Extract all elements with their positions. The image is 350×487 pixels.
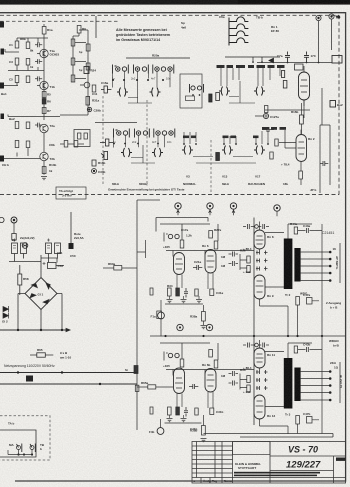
- capacitor C38a: [157, 311, 162, 319]
- capacitor C12b: [84, 133, 87, 139]
- bus resistor R15b: [134, 366, 138, 374]
- wires tube bottoms: [170, 273, 214, 299]
- electrolytic C50b: [21, 243, 27, 254]
- terminal TA (top right): [316, 15, 321, 20]
- dashed enclosure bottom line: [0, 194, 339, 196]
- trimmer pair C14a: [117, 88, 128, 97]
- connector Bu9: [0, 217, 4, 222]
- resistor R2b: [26, 122, 30, 129]
- connector Bu6: [274, 205, 280, 216]
- wire plate row: [166, 251, 254, 257]
- transistor T3a: [80, 82, 90, 88]
- resistor R44b: [294, 346, 297, 353]
- junction dots: [113, 79, 163, 81]
- contact 6: [162, 131, 166, 135]
- screen resistor R36a: [247, 256, 250, 263]
- contact 4: [143, 131, 147, 135]
- resistor R41a: [296, 297, 300, 306]
- note text block: [116, 28, 170, 42]
- trafo junction circle C127: [263, 113, 268, 118]
- secondary taps: [296, 236, 340, 336]
- bus junction dots: [164, 335, 323, 337]
- trimmer pair C15a: [150, 88, 161, 97]
- mains line N: [0, 383, 137, 385]
- coupling caps C12b row: [262, 127, 274, 132]
- trimmer pair C28b: [254, 146, 265, 155]
- trimmer pair C28a: [254, 87, 265, 96]
- capacitor C47a: [307, 298, 313, 305]
- dashed enclosure second top line (left part): [0, 20, 118, 22]
- capacitor C11a: [92, 85, 96, 92]
- bias caps row3: [256, 267, 268, 271]
- main vertical x254 b: [253, 336, 255, 425]
- resistor R29a: [214, 241, 218, 249]
- input contact circles b: [168, 353, 172, 357]
- grid dot: [288, 62, 319, 64]
- transistor T1a: [40, 49, 48, 57]
- resistor R58: [18, 274, 22, 285]
- wire under trimmers: [128, 81, 152, 103]
- wires caps to bus: [9, 254, 64, 296]
- tube Rö2: [296, 135, 307, 162]
- selector feed wire: [95, 16, 97, 38]
- dashed enclosure right edge: [338, 15, 340, 195]
- contact center dots bank S1a: [117, 68, 171, 70]
- capacitor C9a: [71, 58, 75, 65]
- mains line L: [0, 372, 137, 374]
- junction dots mains: [17, 371, 101, 385]
- capacitor C52: [48, 263, 57, 269]
- resistor R19b: [92, 160, 96, 166]
- output transformer Tr3 secondary: [294, 368, 300, 402]
- resistor R7a: [42, 108, 46, 114]
- drop wires: [113, 71, 171, 87]
- bridge diode d2: [43, 300, 49, 304]
- resistor R10a: [86, 44, 90, 51]
- input jack Bu1a: [1, 49, 5, 55]
- capacitor C32a: [282, 71, 285, 78]
- bridge wires: [18, 294, 62, 331]
- wire from TB down: [331, 19, 333, 50]
- cathode row capacitor C30a: [195, 289, 198, 296]
- resistor R11a: [86, 63, 90, 70]
- resistor R30a: [180, 240, 184, 248]
- contact 3: [133, 65, 135, 74]
- edge resistor partial b: [150, 407, 153, 414]
- bridge diode d4: [30, 294, 36, 298]
- tap wire b: [137, 386, 173, 388]
- box left edge: [136, 200, 138, 430]
- capacitor C21a inner: [186, 96, 195, 101]
- connector Bu8: [206, 324, 212, 330]
- resistor R28b: [299, 171, 303, 179]
- wire from TA down: [318, 21, 320, 63]
- wire top right: [288, 224, 322, 239]
- resistor R9a: [77, 26, 81, 34]
- connector Bu5: [230, 203, 236, 215]
- trafo dot Tr1: [22, 243, 28, 249]
- capacitor C20b: [275, 139, 278, 146]
- box top edge: [137, 199, 160, 201]
- speaker bus vertical: [339, 243, 341, 283]
- resistor R24a mid: [84, 67, 89, 74]
- cathode row capacitor C29a: [184, 288, 188, 298]
- caps C18b C19b: [243, 343, 254, 348]
- capacitor C9a block: [295, 64, 304, 70]
- switch inner frame: [0, 430, 36, 457]
- dashed enclosure (tuner/preamp section) top line: [0, 14, 339, 16]
- output tube Rö8: [254, 230, 265, 249]
- input cap C17a': [164, 233, 168, 242]
- wire plate row b: [166, 370, 254, 376]
- trimmer pair C27b: [222, 146, 233, 155]
- tap wire: [103, 267, 137, 269]
- contact 2: [122, 67, 126, 71]
- wire bottom row: [8, 115, 60, 117]
- ground g4: [201, 326, 207, 329]
- capacitor C31a: [210, 289, 214, 296]
- capacitor C10a: [71, 75, 75, 82]
- capacitor C43a: [303, 228, 312, 233]
- bias caps row2 b: [256, 378, 268, 382]
- wires output tubes b: [240, 340, 288, 434]
- wires output tubes: [240, 222, 288, 337]
- capacitor C33: [320, 161, 328, 166]
- inner top edge: [156, 218, 208, 232]
- wire tier2 feed: [95, 122, 137, 124]
- coupling capacitor C21a': [193, 265, 202, 270]
- block frame: [74, 130, 90, 147]
- transistor T2a: [40, 124, 48, 132]
- contact 5: [152, 65, 154, 74]
- output tube Rö12: [254, 395, 265, 419]
- tap resistor R63a: [114, 266, 122, 271]
- resistor R4a: [26, 76, 30, 83]
- connector Bu2a: [332, 56, 342, 64]
- trimmer pair C26b: [182, 146, 193, 155]
- capacitor C2a: [35, 42, 42, 47]
- resistor R38b: [202, 426, 206, 436]
- connector Bu right: [330, 101, 336, 108]
- output transformer Tr2 secondary: [294, 248, 300, 282]
- capacitor C23a dark: [209, 94, 212, 102]
- junction circle C29b: [87, 107, 91, 111]
- triode Rö5: [174, 253, 185, 275]
- resistor R50: [12, 234, 16, 241]
- resistor R13b: [42, 167, 46, 174]
- contact 6: [161, 67, 165, 71]
- wire column x88: [79, 30, 88, 115]
- arrow head: [66, 328, 70, 331]
- feed wire: [225, 57, 280, 61]
- wire input row 3: [4, 148, 40, 159]
- coupling capacitor C21b': [189, 384, 198, 389]
- output tube Rö9: [254, 275, 265, 299]
- main vertical x254: [253, 218, 255, 337]
- diode D1a: [269, 58, 274, 63]
- resistor R5a: [42, 92, 46, 98]
- wire input row 2: [4, 83, 18, 86]
- capacitor C17a feed: [101, 86, 111, 93]
- resistor R30b: [180, 359, 184, 367]
- resistor R3b: [26, 141, 30, 148]
- wire joins: [60, 43, 88, 116]
- wire top row: [160, 224, 218, 241]
- wires around Rö2: [279, 130, 301, 185]
- capacitor C1b: [15, 122, 19, 129]
- input jack Bu2a: [1, 114, 5, 120]
- plus marks: [13, 239, 50, 242]
- drop wires S2b: [184, 131, 268, 144]
- wire tube plate: [265, 100, 310, 118]
- capacitor C7a: [285, 52, 290, 63]
- switch contact Sa: [17, 446, 21, 450]
- contact center dots bank S2a: [118, 132, 172, 134]
- resistor R38a: [202, 312, 206, 322]
- fuse block on mains: [26, 376, 33, 382]
- cathode row resistor R34b: [168, 407, 172, 415]
- capacitor C9b: [265, 106, 268, 113]
- ground g3: [196, 300, 202, 303]
- wire top row b: [160, 343, 218, 360]
- wire plate bus: [17, 24, 48, 120]
- trimmer pair C26a: [219, 87, 230, 96]
- antenna coil stack Sp5a-8a: [229, 17, 248, 46]
- vertical x145: [137, 240, 146, 258]
- electrolytic C51a: [46, 243, 52, 254]
- junction dots: [114, 143, 158, 145]
- tube Rö1 EF80: [299, 66, 310, 106]
- capacitor C47b: [307, 417, 313, 424]
- connector Bu4: [207, 203, 213, 215]
- resistor R65: [37, 353, 46, 357]
- mains drop fuse: [69, 243, 74, 249]
- wire x330 vertical: [329, 125, 331, 185]
- dense small print lines: [234, 472, 320, 474]
- drop wires to contacts: [221, 68, 280, 86]
- triode Rö6b: [205, 369, 216, 393]
- capacitor C6a: [35, 76, 42, 81]
- capacitor C31b: [210, 408, 214, 415]
- cathode row resistor R35b: [176, 407, 180, 415]
- potentiometer R6b: [101, 152, 108, 160]
- transistor T1b: [40, 81, 48, 89]
- fuse F1a: [158, 312, 165, 319]
- terminal TB (top right): [329, 14, 341, 19]
- wire under: [131, 145, 155, 163]
- secondary taps b: [204, 336, 341, 437]
- junction circle C30b: [92, 169, 97, 174]
- mains drop wire: [70, 212, 72, 243]
- cathode row resistor R35a: [176, 288, 180, 296]
- wire lower right b: [298, 336, 323, 434]
- dots: [193, 94, 200, 96]
- capacitor C8a: [304, 52, 309, 63]
- wire link: [60, 143, 84, 145]
- fuse F4b: [157, 428, 164, 435]
- transistor T2b: [40, 152, 48, 160]
- bias caps row3 b: [256, 386, 268, 390]
- resistor R2a: [26, 42, 30, 49]
- capacitor C3b: [15, 141, 19, 148]
- capacitor C7b: [74, 141, 78, 148]
- title block: [192, 442, 346, 484]
- resistor R27b: [209, 350, 213, 358]
- resistor R41b: [296, 416, 300, 425]
- screen resistor R37b: [247, 385, 250, 392]
- resistor R29b: [214, 360, 218, 368]
- contact 7: [168, 67, 172, 71]
- contact 1: [114, 129, 118, 138]
- resistor R27a: [209, 231, 213, 239]
- tap terminal dots b: [329, 370, 332, 401]
- resistor R12b: [78, 133, 81, 139]
- label caps row C24b etc: [183, 127, 286, 138]
- resistor R31a: [86, 97, 90, 106]
- junction dots: [253, 61, 262, 63]
- bus wire y336: [150, 335, 346, 337]
- cathode row capacitor C30b: [195, 408, 198, 415]
- output tube Rö11: [254, 348, 265, 368]
- junction dots supply: [17, 329, 63, 331]
- wire row2 bus: [8, 65, 44, 71]
- input cap C17b': [164, 352, 168, 361]
- contact 5: [153, 129, 155, 138]
- diode Gl2 pair: [3, 306, 9, 319]
- input contact circles: [168, 234, 172, 238]
- cathode row resistor R34a: [168, 288, 172, 296]
- plus mark C52: [43, 262, 46, 265]
- bias caps row2: [256, 259, 268, 263]
- capacitor C4a: [35, 59, 42, 64]
- bias caps row1: [256, 251, 268, 257]
- output transformer Tr3 primary: [284, 358, 293, 409]
- connector Bu7: [177, 324, 183, 330]
- capacitor C8a: [71, 39, 75, 46]
- wire input row 1: [5, 49, 19, 52]
- capacitor C5a: [15, 76, 19, 83]
- capacitor C3a: [15, 58, 19, 65]
- bottom border partial line: [15, 480, 192, 482]
- bridge diode d1: [46, 283, 50, 289]
- capacitor C2b: [35, 123, 42, 128]
- switch contact Sb: [30, 446, 34, 450]
- wire feed: [126, 57, 190, 59]
- caps C18a C19a: [243, 224, 254, 229]
- grid caps left pair b: [229, 371, 239, 376]
- contact 1: [113, 65, 117, 74]
- wire under: [229, 81, 255, 103]
- contact 7: [169, 131, 173, 135]
- input jack Bu1b: [0, 83, 4, 89]
- speaker bus vertical b: [339, 362, 341, 403]
- resistor R44a: [294, 227, 297, 234]
- ground g4b: [201, 439, 207, 442]
- supply bus wire: [0, 329, 70, 331]
- wire column x73: [73, 33, 79, 82]
- ground g2: [181, 300, 187, 303]
- resistor R3a: [26, 59, 30, 66]
- contact c1: [191, 86, 195, 90]
- trimmer pair C15b: [152, 148, 163, 157]
- contact c2: [197, 86, 201, 90]
- ground g1b: [167, 419, 173, 422]
- resistor R1a: [42, 27, 46, 35]
- triode Rö6: [205, 250, 216, 274]
- resistor R8b: [64, 141, 68, 148]
- connector Bu10: [11, 217, 17, 234]
- bridge rectifier Gl1 frame: [25, 278, 57, 310]
- capacitor bank labels C24a-C31a: [217, 65, 285, 68]
- wire top right b: [288, 343, 322, 358]
- resistor R23b: [216, 153, 220, 161]
- contact bars: [190, 84, 204, 93]
- resistor R16b: [255, 103, 303, 135]
- ground g2b: [181, 419, 187, 422]
- wire under: [193, 157, 256, 164]
- electrolytic C50a: [12, 243, 18, 254]
- aux jack top: [0, 22, 4, 28]
- triode Rö5b: [174, 368, 185, 394]
- wires tube bottoms b: [170, 392, 214, 418]
- tap resistor R65b: [148, 385, 156, 389]
- scan black top edge bar: [0, 0, 350, 5]
- contact 3: [134, 129, 136, 138]
- drop wires: [114, 135, 165, 147]
- resistor R66b: [135, 385, 139, 391]
- bridge diode d3: [32, 283, 38, 287]
- ground G2b: [41, 177, 47, 180]
- cathode row capacitor C29b: [184, 407, 188, 417]
- junction dots: [184, 143, 268, 145]
- capacitor C13b feed: [100, 139, 113, 146]
- wire lower right: [298, 236, 323, 336]
- switch wires: [8, 450, 32, 455]
- input jack Bu2b: [0, 156, 4, 162]
- bottom wires: [204, 434, 334, 438]
- resistor R23a: [216, 93, 220, 101]
- note box TA level: [56, 187, 86, 199]
- wire h y62.5: [257, 62, 332, 64]
- wires to bus: [161, 300, 204, 336]
- switch bottom dots: [17, 453, 33, 455]
- wires to bottom: [161, 415, 204, 428]
- resistor R26b: [270, 152, 273, 159]
- wire x322 vertical: [321, 88, 323, 125]
- resistor R6a dark: [42, 99, 46, 105]
- wire riser: [43, 133, 45, 175]
- screen resistor R37a: [247, 266, 250, 273]
- bias caps row1 b: [256, 370, 268, 374]
- electrolytic C51b: [55, 243, 61, 254]
- inner frame right: [320, 125, 330, 193]
- contact 4: [142, 67, 146, 71]
- grid caps left pair: [229, 252, 239, 257]
- tap terminal dots: [329, 251, 332, 282]
- wire R65: [30, 354, 53, 356]
- ground g1: [167, 300, 173, 303]
- connector Bu3: [175, 203, 181, 215]
- capacitor C43b: [303, 347, 312, 352]
- capacitor C1a: [15, 41, 19, 48]
- screen resistor R36b: [247, 376, 250, 383]
- output transformer Tr2 primary: [284, 239, 293, 290]
- contact 2: [123, 131, 127, 135]
- trimmer pair C14b: [121, 148, 132, 157]
- resistor R24a: [283, 81, 287, 89]
- edge resistor partial: [150, 288, 153, 295]
